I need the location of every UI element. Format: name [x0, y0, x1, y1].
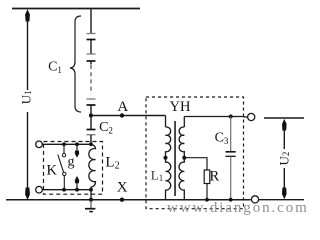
- brace for C1: [70, 16, 81, 112]
- wire: gap box bottom rail: [42, 189, 91, 191]
- resistor R: [204, 170, 210, 184]
- terminal (secondary output top): [248, 113, 255, 120]
- junction dots on gap box rails: [62, 142, 66, 146]
- wire: U2 shaft upper: [283, 130, 285, 150]
- junction C3 top: [229, 115, 233, 119]
- arrow U2 measurement (top head): [282, 119, 287, 131]
- dashed enclosure K/g/L2: [44, 142, 103, 195]
- node junction C1/C2: [89, 113, 93, 117]
- wire: U1 arrow shaft lower: [27, 112, 29, 189]
- switch K: [63, 144, 65, 153]
- transformer core: [174, 121, 176, 196]
- wire: lead C2 to gap box: [90, 135, 92, 144]
- wire: secondary top stub: [183, 117, 185, 128]
- ground: [90, 200, 92, 209]
- winding secondary lower (right): [179, 158, 184, 200]
- wire: bottom earth rail: [6, 199, 251, 201]
- junction secondary tap: [182, 156, 186, 160]
- capacitor C2: [87, 129, 96, 131]
- wire: U1 arrow shaft upper: [27, 20, 29, 90]
- terminal (secondary output bottom): [251, 196, 258, 203]
- wire: top HV bus: [12, 8, 140, 10]
- svg-text:X: X: [117, 180, 128, 196]
- svg-text:R: R: [209, 168, 219, 184]
- arrow U1 measurement (top head): [25, 9, 30, 21]
- dashed enclosure YH (voltage transformer unit): [146, 97, 244, 209]
- arrow U2 measurement (bottom head): [282, 188, 287, 200]
- svg-text:YH: YH: [170, 99, 191, 115]
- winding secondary upper (right): [179, 127, 184, 156]
- capacitor C3: [230, 117, 232, 152]
- svg-text:www.diangon.com: www.diangon.com: [167, 200, 308, 216]
- terminal (top carrier terminal): [36, 141, 43, 148]
- node X: [120, 198, 124, 202]
- arrow U1 measurement (bottom head): [25, 188, 30, 200]
- capacitor C1 element 2: [87, 53, 96, 55]
- wire: gap box top rail: [42, 143, 91, 145]
- wire: lead node to C2: [90, 116, 92, 130]
- svg-text:A: A: [117, 99, 128, 115]
- wire: dashed continuation of C1 stack: [90, 62, 92, 65]
- wire: primary top stub: [165, 116, 167, 128]
- wire: output bottom right: [259, 199, 304, 201]
- junction primary/L1: [164, 156, 168, 160]
- capacitor C1 element 3: [87, 98, 96, 100]
- spark gap g (lower electrode): [76, 183, 78, 190]
- wire between C1 elements: [90, 40, 92, 54]
- wire: gap box to ground: [90, 190, 92, 200]
- terminal (bottom carrier terminal): [36, 186, 43, 193]
- winding primary upper (left): [166, 127, 171, 156]
- spark gap g (upper electrode): [76, 144, 78, 151]
- wire: node A horizontal: [91, 115, 166, 117]
- wire: lead from top bus into C1 stack: [90, 9, 92, 33]
- wire: lead from C1 stack to node: [90, 106, 92, 116]
- capacitor C1 element 1: [87, 33, 96, 35]
- inductor L2: [89, 144, 96, 189]
- wire: output top right: [264, 117, 304, 119]
- wire: R to bottom rail: [206, 184, 208, 200]
- wire: tap to damping resistor R: [184, 158, 207, 170]
- svg-text:K: K: [47, 162, 58, 178]
- wire: secondary output top: [184, 116, 243, 118]
- wire: U2 shaft lower: [283, 168, 285, 189]
- svg-text:g: g: [68, 154, 75, 169]
- winding reactor L1 (left lower): [166, 158, 171, 200]
- node A: [120, 113, 124, 117]
